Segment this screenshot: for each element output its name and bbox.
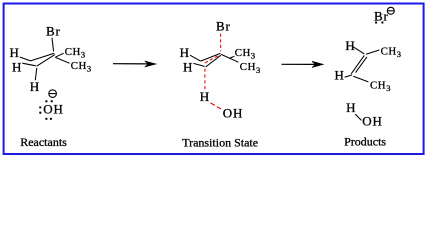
- svg-text:Br: Br: [374, 8, 389, 23]
- svg-text:CH3: CH3: [381, 46, 402, 60]
- svg-text:Transition State: Transition State: [182, 135, 258, 149]
- reactant: bond H2-C3: [22, 63, 36, 66]
- products: bond H-C bottom: [345, 75, 352, 77]
- svg-text:OH: OH: [362, 113, 382, 128]
- svg-text:CH3: CH3: [71, 60, 92, 74]
- products: bromide lone pair dots: [375, 22, 383, 24]
- products: bond Cbot-CH3: [353, 76, 368, 82]
- transition state: bond H2-C3: [193, 63, 204, 66]
- products: bromide minus charge: [387, 7, 394, 14]
- svg-text:H: H: [180, 45, 190, 60]
- svg-text:CH3: CH3: [235, 47, 256, 61]
- svg-text:H: H: [10, 45, 20, 60]
- svg-text:CH3: CH3: [65, 46, 86, 60]
- transition state: bond H1-C3: [190, 55, 201, 61]
- reactant: hydroxide lone pair dots: [39, 100, 52, 120]
- products: double bond line inner: [356, 57, 367, 73]
- svg-text:OH: OH: [43, 102, 63, 117]
- svg-text:Products: Products: [344, 135, 386, 149]
- transition state: wedge lower line: [206, 55, 221, 67]
- reactant: wedge upper line C-C: [31, 53, 55, 61]
- products: water bond H-O: [355, 114, 361, 120]
- transition state: forming pi bond red dashed: [205, 56, 218, 63]
- frame border: [4, 4, 424, 155]
- svg-text:H: H: [30, 79, 39, 94]
- transition state: bond C2-CH3 lower: [221, 54, 238, 62]
- products: double bond line outer: [351, 55, 364, 73]
- svg-text:CH3: CH3: [240, 61, 261, 75]
- transition state: bond C2-Br red dashed: [220, 34, 222, 52]
- arrow 2: [282, 61, 323, 67]
- reactant: bond C2-Br: [52, 38, 54, 52]
- products: bond H-C top: [353, 47, 364, 54]
- svg-text:Br: Br: [216, 18, 231, 33]
- transition state: wedge upper line: [201, 53, 221, 61]
- svg-text:Br: Br: [46, 24, 61, 39]
- svg-text:Reactants: Reactants: [20, 135, 67, 149]
- arrow 1: [113, 61, 156, 67]
- products: bond Ctop-CH3: [366, 50, 379, 54]
- svg-text:H: H: [335, 67, 345, 82]
- svg-text:H: H: [200, 89, 209, 104]
- svg-text:H: H: [346, 100, 356, 115]
- transition state: forming H-O bond red dashed: [211, 103, 222, 109]
- svg-text:H: H: [12, 60, 22, 75]
- svg-text:H: H: [345, 38, 355, 53]
- svg-text:H: H: [183, 59, 193, 74]
- reactant: bond C2-CH3 lower: [55, 57, 69, 63]
- transition state: bond C2-CH3 upper: [230, 56, 235, 58]
- reactant: bond C3-H bottom: [35, 68, 37, 80]
- transition state: breaking C3-H bond red dashed: [204, 69, 206, 91]
- reactant: bond C2-CH3 upper: [55, 53, 63, 57]
- svg-text:CH3: CH3: [370, 80, 391, 94]
- reactant: hydroxide minus charge: [49, 90, 57, 98]
- svg-text:OH: OH: [223, 105, 243, 120]
- reactant: wedge lower line C-C: [37, 55, 55, 67]
- reactant: bond H1-C3: [20, 57, 31, 61]
